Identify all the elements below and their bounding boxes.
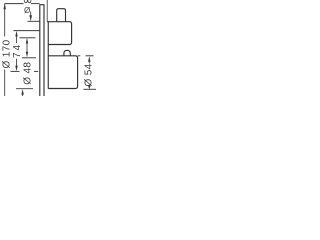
node arrowhead Ø54 bottom, pointing down: [88, 85, 91, 89]
wire extension line D at knob bottom y88.7: [16, 88, 33, 90]
wire extension line of knob top edge at y21.3: [28, 20, 40, 22]
svg-text:Ø 54: Ø 54: [84, 63, 95, 86]
svg-text:Ø: Ø: [24, 6, 30, 15]
node arrowhead 74 bottom, pointing down: [15, 66, 18, 72]
wire extension line at plate top, left segment: [5, 3, 24, 5]
wire extension line A at y30.5: [14, 30, 40, 32]
node arrowhead bottom-left of cut dimension, pointing up: [21, 89, 24, 95]
node bottom knob body outline: [48, 56, 77, 89]
svg-text:Ø 48: Ø 48: [23, 62, 34, 85]
node top knob grip tab: [57, 9, 66, 22]
wire knob rear edge / base sleeve at x48.25: [47, 22, 49, 89]
wire dimension line of Ø54 stub: [88, 62, 90, 64]
node arrowhead 74 top, pointing up: [15, 31, 18, 37]
node arrowhead Ø170 top, pointing up: [3, 4, 5, 10]
wire right extension line bottom y89.3: [84, 88, 97, 90]
wire dimension line of Ø170, lower segment: [4, 70, 6, 97]
wire dimension line of Ø170, upper segment: [4, 4, 6, 37]
node wall plate escutcheon, side profile: [40, 5, 44, 96]
node arrowhead of top Ø label leader, pointing down: [29, 15, 32, 21]
node cut-off digit bottoms of top label, right arc: [28, 0, 31, 3]
node arrowhead Ø54 top, pointing up: [88, 56, 91, 62]
wire extension line E at y57.8: [22, 57, 36, 59]
wire dimension line of 74, upper segment: [16, 36, 18, 43]
wire vertical extension line from image top at x47: [46, 0, 48, 22]
wire right extension line top y55.8, main segment: [86, 55, 94, 57]
wire dimension line of Ø48: [26, 44, 28, 53]
wire right extension line top y55.8, stub at knob corner: [78, 55, 81, 57]
wire dimension line of 74, lower segment: [16, 59, 18, 66]
wire extension line B at y37.8: [20, 37, 36, 39]
wire extension line C at y71.4, left of text: [11, 70, 20, 72]
svg-text:74: 74: [12, 43, 23, 58]
wire leader stem of top Ø label: [30, 12, 32, 16]
wire stem below bottom-left arrow running off image: [22, 94, 24, 96]
node top knob body outline: [47, 22, 71, 45]
node bottom knob grip dome: [64, 50, 70, 56]
wire extension line C at y71.4, right of text: [34, 70, 38, 72]
node arrowhead Ø48 top, pointing up: [26, 38, 29, 44]
wire extension line at plate top, right segment: [31, 3, 40, 5]
node arrowhead Ø48 bottom, pointing down: [26, 52, 29, 58]
node cut-off digit bottoms of top label, left arc: [24, 0, 27, 3]
